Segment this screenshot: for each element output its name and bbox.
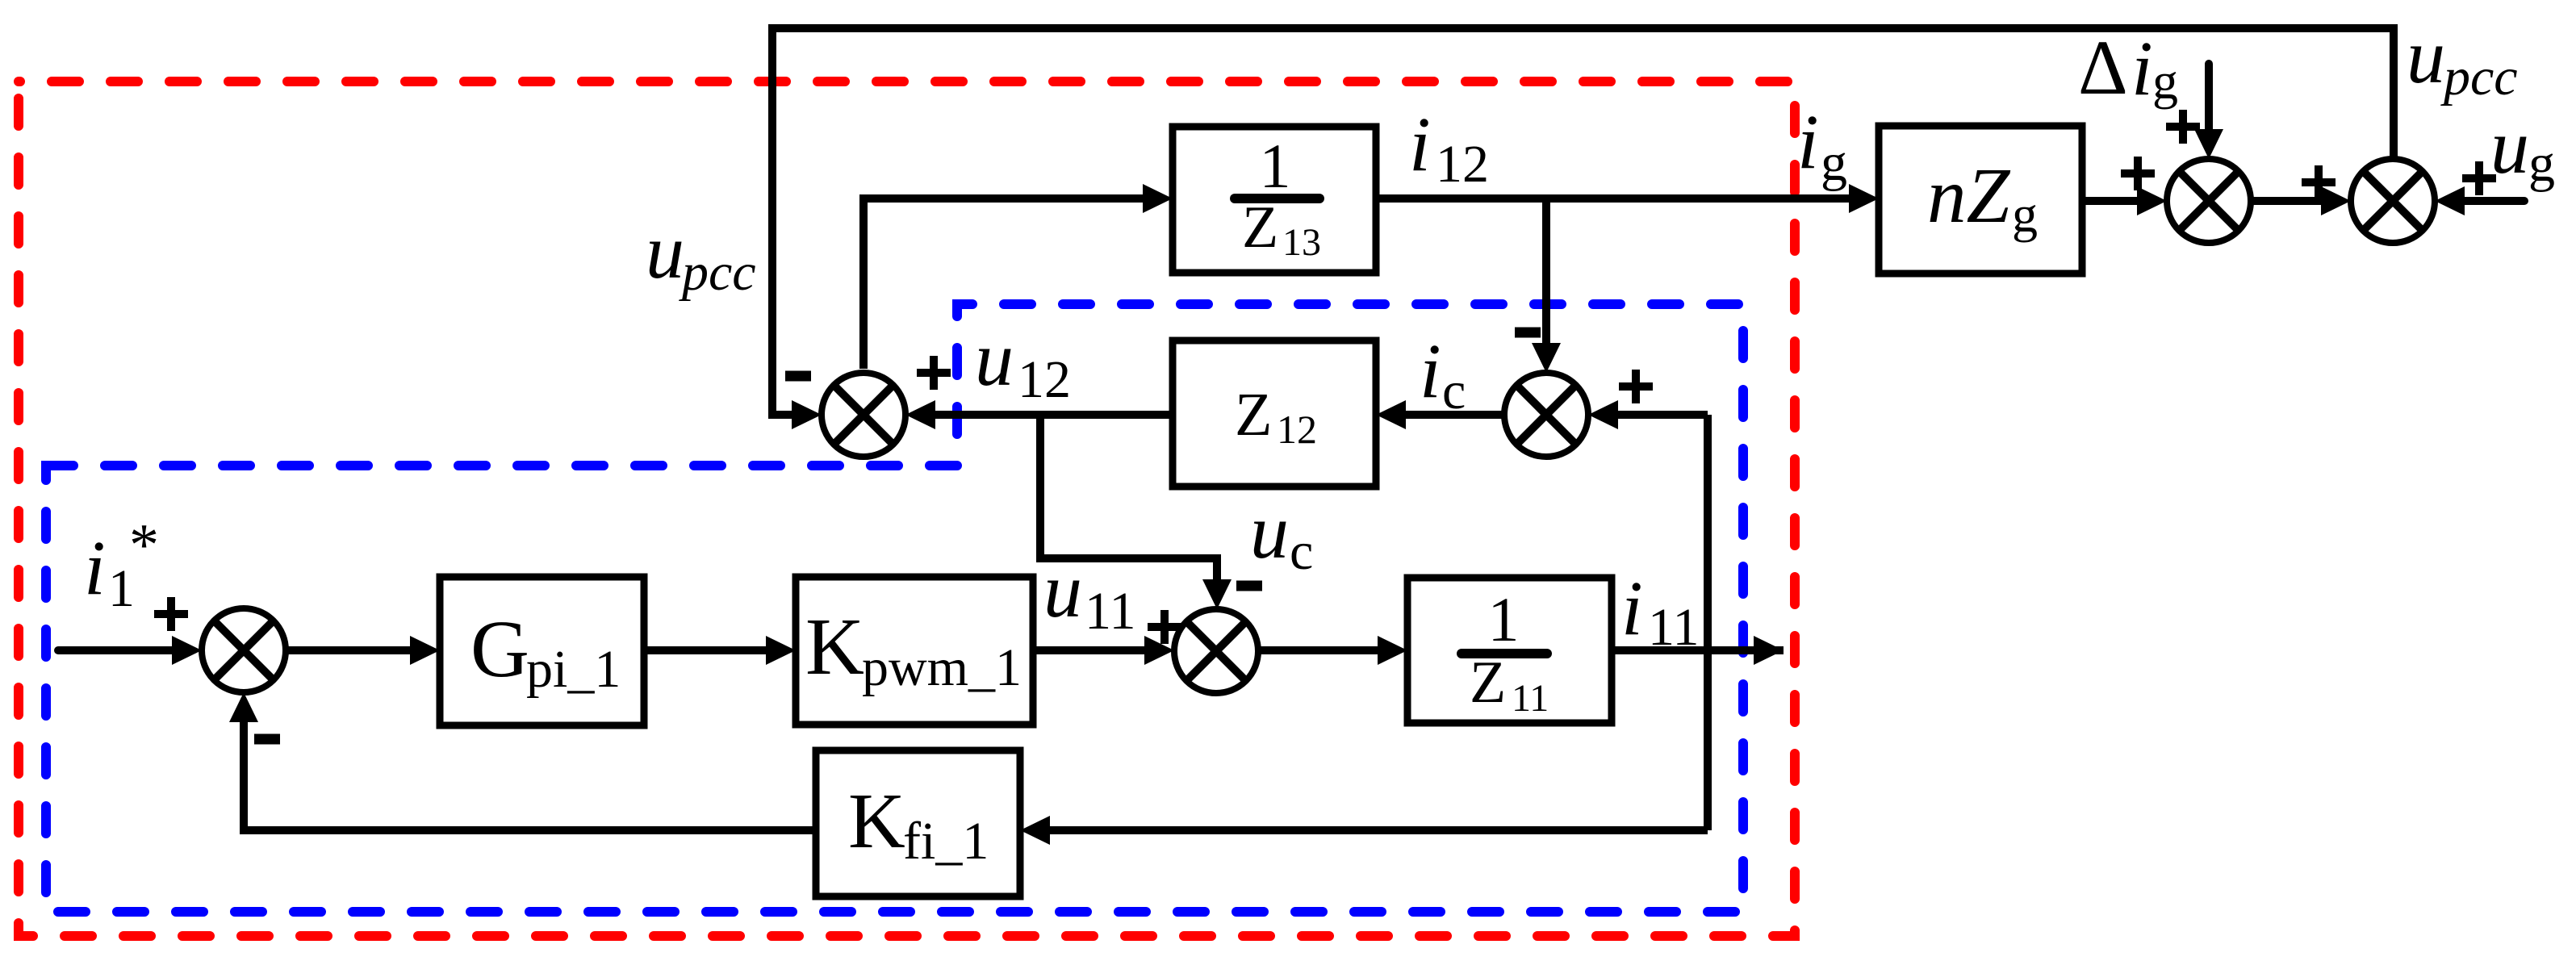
svg-text:12: 12 <box>1436 135 1489 194</box>
svg-text:K: K <box>805 601 864 692</box>
summing junction S4 (i11 minus i12 = i_c) <box>1504 373 1588 457</box>
wire i12 branch down into i_c sum S4 <box>1532 198 1561 373</box>
block Z12 <box>1173 341 1376 487</box>
summing junction S1 (i1* minus feedback) <box>202 608 286 692</box>
block Kfi_1 label <box>848 778 989 871</box>
wire i11 feedback vertical <box>1704 415 1712 830</box>
plus sign at S6 u_g input <box>2462 161 2496 195</box>
summing junction S3 (u12 minus u_pcc) <box>822 373 905 457</box>
svg-text:Z: Z <box>1470 650 1506 716</box>
block 1/Z13 label <box>1235 131 1321 264</box>
label delta i_g (disturbance) <box>2078 24 2178 111</box>
wire i11 output of 1/Z11 <box>1612 636 1784 665</box>
svg-text:Z: Z <box>1242 194 1278 261</box>
block 1/Z13 <box>1173 127 1376 273</box>
summing junction S5 (nZg ig plus delta ig) <box>2167 159 2251 243</box>
label u_12 <box>975 315 1071 409</box>
minus sign at S4 i12 input <box>1515 328 1541 338</box>
plus sign at S6 left input <box>2302 165 2336 199</box>
svg-text:u: u <box>2490 103 2529 190</box>
svg-text:pwm_1: pwm_1 <box>862 638 1022 697</box>
svg-text:u: u <box>1250 488 1289 575</box>
svg-text:i: i <box>1621 565 1643 651</box>
label i_11 <box>1621 565 1700 657</box>
wire S2 output to 1/Z11 <box>1258 636 1407 665</box>
label u_pcc (left feedback) <box>646 208 756 302</box>
wire u_c branch from u12 wire down into S2 <box>1040 415 1232 609</box>
svg-text:1: 1 <box>1488 584 1520 654</box>
svg-text:g: g <box>2012 186 2038 243</box>
svg-text:u: u <box>2407 13 2445 99</box>
wire i11 feedback into S4 <box>1588 400 1708 429</box>
svg-text:i: i <box>1797 98 1819 185</box>
wire u_pcc arrow into S3 <box>788 400 822 429</box>
svg-text:nZ: nZ <box>1927 153 2011 239</box>
wire nZg output to S5 <box>2082 186 2167 215</box>
svg-text:u: u <box>975 315 1014 402</box>
svg-text:13: 13 <box>1282 221 1321 264</box>
svg-text:pcc: pcc <box>679 243 756 302</box>
wire u_g input into S6 <box>2435 186 2524 215</box>
summing junction S2 (u11 minus u_c) <box>1174 609 1258 693</box>
block Kpwm_1 label <box>805 601 1022 697</box>
plus sign at S4 i11 input <box>1619 370 1653 403</box>
minus sign at S1 feedback input <box>254 734 280 745</box>
svg-text:pi_1: pi_1 <box>526 640 621 699</box>
svg-text:11: 11 <box>1512 677 1549 720</box>
block 1/Z11 label <box>1462 584 1549 720</box>
svg-text:pcc: pcc <box>2440 48 2518 107</box>
svg-text:i: i <box>2131 25 2153 111</box>
red dashed boundary box (n-paralleled inverters outer boundary) <box>19 81 1795 936</box>
svg-text:c: c <box>1290 522 1313 581</box>
plus sign at S3 u12 input <box>917 356 951 390</box>
svg-text:Δ: Δ <box>2078 24 2128 111</box>
svg-text:12: 12 <box>1277 407 1317 452</box>
svg-text:Z: Z <box>1235 381 1272 449</box>
label u_c <box>1250 488 1313 581</box>
wire i1* reference input <box>58 636 202 665</box>
wire i12 from 1/Z13 to nZg <box>1376 184 1879 213</box>
svg-text:i: i <box>84 524 106 611</box>
block nZg <box>1879 126 2082 274</box>
label i_c <box>1420 328 1466 420</box>
label u_g (grid voltage) <box>2490 103 2555 193</box>
wire Kfi_1 output to S1 <box>229 692 816 830</box>
wire S1 output to Gpi_1 <box>286 636 440 665</box>
block nZg label <box>1927 153 2038 243</box>
wire u11 from Kpwm_1 to S2 <box>1033 636 1174 665</box>
minus sign at S2 u_c input <box>1236 581 1262 591</box>
svg-text:i: i <box>1420 328 1441 414</box>
svg-text:*: * <box>129 512 159 579</box>
block Gpi_1 label <box>470 604 621 699</box>
svg-text:12: 12 <box>1018 350 1071 409</box>
wire i_c from S4 to Z12 <box>1376 400 1504 429</box>
plus sign at S2 u11 input <box>1148 610 1181 644</box>
svg-text:11: 11 <box>1648 598 1700 657</box>
block Gpi_1 <box>440 577 644 725</box>
svg-text:11: 11 <box>1085 582 1136 641</box>
svg-text:i: i <box>1409 101 1431 187</box>
svg-text:K: K <box>848 778 905 865</box>
minus sign at S3 u_pcc input <box>785 371 811 382</box>
wire S3 output up and right into 1/Z13 <box>864 184 1173 369</box>
block Z12 label <box>1235 381 1317 452</box>
wire delta-ig disturbance input into S5 <box>2194 64 2223 159</box>
plus sign at S5 delta-ig input <box>2166 110 2200 144</box>
block Kfi_1 <box>816 750 1020 896</box>
block 1/Z11 <box>1407 578 1612 723</box>
svg-text:g: g <box>2152 52 2178 110</box>
label i_12 <box>1409 101 1489 194</box>
label i_g <box>1797 98 1847 192</box>
blue dashed boundary box (inverter 1 control loop boundary) <box>46 304 1743 912</box>
svg-text:g: g <box>2528 134 2555 193</box>
svg-text:u: u <box>646 208 684 295</box>
wire Gpi_1 output to Kpwm_1 <box>644 636 796 665</box>
wire u_pcc top feedback (from u_g sum up, across top, down to S3) <box>772 28 2394 415</box>
label u_11 <box>1043 547 1136 641</box>
wire u12 from Z12 to S3 <box>905 400 1173 429</box>
svg-text:1: 1 <box>1260 131 1291 201</box>
summing junction S6 (plus u_g = u_pcc) <box>2351 159 2435 243</box>
wire i11 feedback to Kfi_1 <box>1020 816 1708 845</box>
svg-text:fi_1: fi_1 <box>903 812 989 871</box>
wire S5 output to S6 <box>2251 186 2351 215</box>
block Kpwm_1 <box>796 577 1033 725</box>
svg-text:g: g <box>1821 133 1847 192</box>
plus sign at S5 left input <box>2121 157 2155 190</box>
svg-text:G: G <box>470 604 529 694</box>
plus sign at S1 reference input <box>154 597 188 631</box>
label i_1 star (current reference) <box>84 512 159 618</box>
svg-text:c: c <box>1442 361 1466 420</box>
svg-text:u: u <box>1043 547 1082 633</box>
label u_pcc (top right) <box>2407 13 2518 107</box>
